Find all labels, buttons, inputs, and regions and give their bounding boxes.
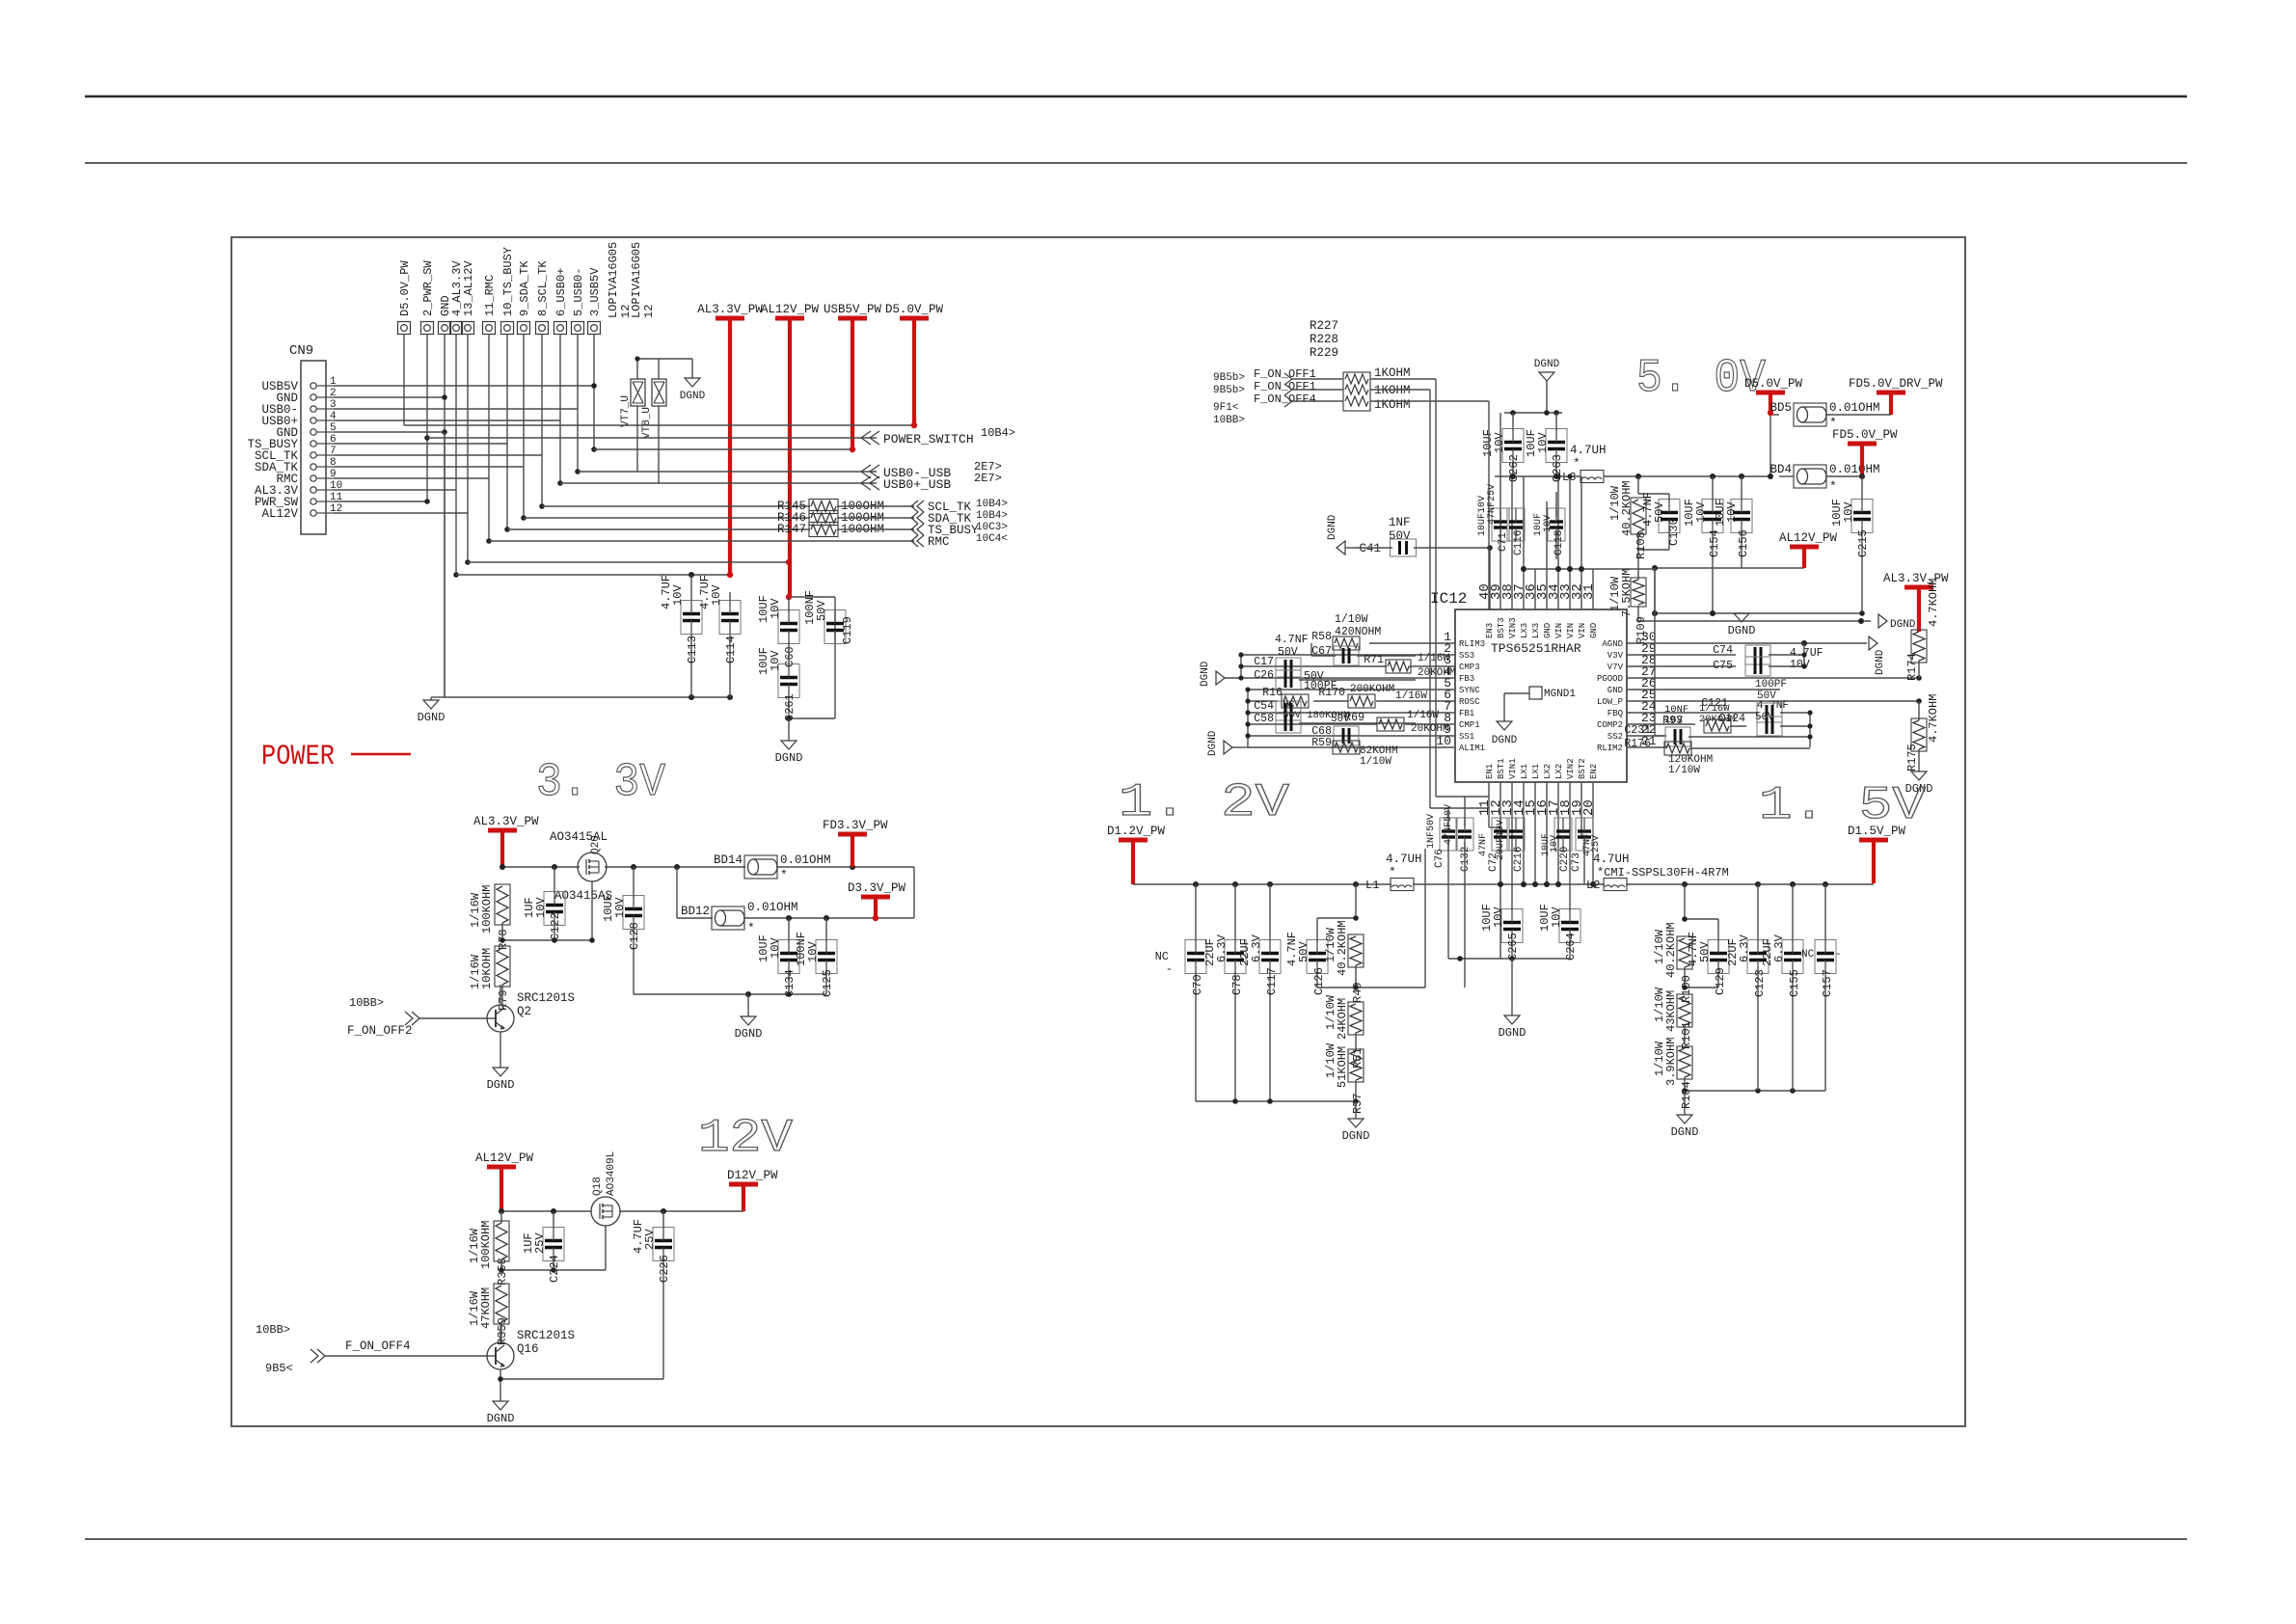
svg-text:R58: R58 xyxy=(1311,631,1332,643)
svg-text:C58: C58 xyxy=(1254,713,1274,725)
test point 6_USB0+ xyxy=(554,268,569,335)
svg-text:C41: C41 xyxy=(1359,542,1381,555)
wire TS_BUSY row right xyxy=(837,528,914,530)
IC12 top pin numbers and stubs xyxy=(1477,569,1597,609)
svg-text:50V: 50V xyxy=(1297,941,1310,962)
power flag D3.3V_PW xyxy=(848,881,906,918)
svg-text:C75: C75 xyxy=(1713,660,1733,672)
capacitor C54 xyxy=(1254,699,1301,720)
IC IC12 TPS65251RHAR xyxy=(1430,590,1627,782)
IC12 right pin stubs xyxy=(1627,643,1666,747)
svg-text:D1.5V_PW: D1.5V_PW xyxy=(1848,825,1906,838)
svg-text:10V: 10V xyxy=(769,650,782,671)
capacitor C224 1UF 25V xyxy=(522,1211,564,1283)
svg-text:BST3: BST3 xyxy=(1497,617,1506,638)
svg-text:D5.0V_PW: D5.0V_PW xyxy=(1744,377,1803,391)
svg-text:5_USB0-: 5_USB0- xyxy=(572,268,585,316)
svg-text:50V: 50V xyxy=(1278,646,1298,659)
svg-text:SRC1201S: SRC1201S xyxy=(517,1329,575,1342)
svg-text:DGND: DGND xyxy=(1327,514,1338,540)
svg-text:100KOHM: 100KOHM xyxy=(479,1221,493,1269)
ground DGND right arrow upper xyxy=(1878,614,1916,631)
svg-text:DGND: DGND xyxy=(1207,730,1219,756)
capacitor C265 10UF 10V xyxy=(1480,901,1523,961)
capacitor C264 10UF 10V xyxy=(1538,901,1580,961)
svg-text:CMP3: CMP3 xyxy=(1459,663,1480,672)
resistor R147 100OHM xyxy=(777,523,884,537)
svg-text:1/16W: 1/16W xyxy=(1407,710,1439,721)
svg-text:R104: R104 xyxy=(1680,1081,1693,1109)
svg-text:6.3V: 6.3V xyxy=(1738,934,1751,962)
wire SDA_TK row left xyxy=(524,517,810,519)
svg-text:43KOHM: 43KOHM xyxy=(1664,990,1678,1032)
svg-text:R57: R57 xyxy=(1351,1093,1364,1114)
label NC C155 xyxy=(1801,949,1842,961)
off-page SCL_TK xyxy=(911,499,1008,514)
IC12 right pin names xyxy=(1597,639,1624,753)
svg-text:C126: C126 xyxy=(1312,967,1326,995)
svg-text:6.3V: 6.3V xyxy=(1772,934,1786,962)
svg-text:BST2: BST2 xyxy=(1578,758,1587,779)
svg-text:GND: GND xyxy=(1607,686,1623,695)
resistor R145 100OHM xyxy=(777,500,884,514)
svg-text:51KOHM: 51KOHM xyxy=(1336,1046,1349,1088)
capacitor C220 10UF 10V xyxy=(1541,818,1572,872)
wire pin25 LOW_P to R175 xyxy=(1666,700,1919,702)
wire testpoint drop x616 xyxy=(593,334,595,449)
wire CN9 pin9 row xyxy=(334,477,489,479)
svg-text:Q18: Q18 xyxy=(592,1177,604,1196)
capacitor C231 xyxy=(1624,724,1810,746)
svg-text:RLIM2: RLIM2 xyxy=(1597,744,1623,753)
wire 1.5V cap ground row xyxy=(1685,1090,1825,1092)
svg-text:EN1: EN1 xyxy=(1485,764,1495,779)
svg-text:10V: 10V xyxy=(806,941,820,962)
resistor R57 51KOHM xyxy=(1324,1042,1364,1114)
svg-text:SRC1201S: SRC1201S xyxy=(517,991,575,1005)
wire C261 to ground xyxy=(788,718,790,741)
svg-text:R170: R170 xyxy=(1318,687,1345,699)
svg-text:10: 10 xyxy=(1436,734,1451,748)
svg-text:AL12V_PW: AL12V_PW xyxy=(761,303,820,316)
svg-text:10BB>: 10BB> xyxy=(349,996,384,1010)
svg-text:C129: C129 xyxy=(1714,967,1727,995)
resistor R69 20KOHM xyxy=(1331,710,1449,735)
wire pin29 v3v feed vertical xyxy=(1654,569,1656,736)
svg-text:ROSC: ROSC xyxy=(1459,697,1480,707)
svg-text:USB5V_PW: USB5V_PW xyxy=(824,303,882,316)
capacitor C78 22UF 6.3V xyxy=(1203,884,1246,1101)
label POWER xyxy=(261,741,411,773)
svg-text:50V: 50V xyxy=(1653,501,1666,523)
svg-text:2_PWR_SW: 2_PWR_SW xyxy=(421,260,435,316)
svg-text:C123: C123 xyxy=(1753,969,1767,997)
wire CN9 pin3 row xyxy=(334,408,578,410)
wire pin30 AGND to ground xyxy=(1666,642,1867,644)
svg-text:13_AL12V: 13_AL12V xyxy=(462,260,475,316)
svg-text:USB0+_USB: USB0+_USB xyxy=(883,477,951,492)
svg-text:POWER_SWITCH: POWER_SWITCH xyxy=(883,432,974,447)
wire testpoint drop x507 xyxy=(488,334,490,541)
svg-text:12: 12 xyxy=(642,305,656,318)
wire C265 C264 ground row xyxy=(1448,958,1570,960)
svg-text:CN9: CN9 xyxy=(289,343,313,359)
mosfet Q20 AO3415AL xyxy=(550,830,612,903)
svg-text:0.01OHM: 0.01OHM xyxy=(1829,401,1880,415)
svg-text:C226: C226 xyxy=(658,1255,671,1283)
svg-text:PGOOD: PGOOD xyxy=(1597,674,1623,684)
svg-text:Q2: Q2 xyxy=(517,1005,531,1018)
capacitor C121 4.7NF 50V xyxy=(1666,697,1810,723)
wire pin27 PGOOD to R174 xyxy=(1666,677,1919,679)
svg-text:VIN: VIN xyxy=(1578,623,1587,638)
wire IC12 pin5-10 net lines xyxy=(1248,690,1416,747)
svg-text:V3V: V3V xyxy=(1607,651,1624,661)
IC12 top pin names xyxy=(1485,617,1599,638)
svg-text:LOW_P: LOW_P xyxy=(1597,697,1623,707)
capacitor C216 20UF 10V xyxy=(1496,818,1525,872)
svg-text:SS3: SS3 xyxy=(1459,651,1474,661)
test point 3_USB5V xyxy=(588,267,603,335)
wire testpoint drop x485 xyxy=(467,334,469,562)
wire C262 C263 top row xyxy=(1504,412,1562,414)
svg-text:47NF25V: 47NF25V xyxy=(1487,484,1498,525)
capacitor C262 10UF 10V xyxy=(1481,413,1524,482)
svg-text:C125: C125 xyxy=(821,969,834,997)
svg-text:6.3V: 6.3V xyxy=(1250,934,1263,962)
svg-text:R174: R174 xyxy=(1905,653,1919,681)
off-page TS_BUSY xyxy=(911,522,1008,537)
svg-text:C132: C132 xyxy=(1460,847,1472,872)
svg-text:4.7UH: 4.7UH xyxy=(1593,853,1630,866)
svg-text:0.01OHM: 0.01OHM xyxy=(780,853,831,867)
svg-text:C26: C26 xyxy=(1254,669,1274,682)
svg-text:DGND: DGND xyxy=(680,391,706,402)
svg-text:10V: 10V xyxy=(1492,907,1505,928)
svg-text:2E7>: 2E7> xyxy=(974,472,1002,485)
svg-text:420NOHM: 420NOHM xyxy=(1335,626,1381,638)
svg-text:10V: 10V xyxy=(710,584,723,606)
svg-text:25V: 25V xyxy=(533,1232,547,1254)
wire CN9 pin5 row xyxy=(334,431,445,433)
wire testpoint drop x526 xyxy=(506,334,508,529)
capacitor C26 100PF 50V xyxy=(1254,669,1416,692)
svg-text:F_ON_OFF1: F_ON_OFF1 xyxy=(1254,380,1316,393)
off-page USB0+_USB xyxy=(861,472,1002,492)
inductor L2 4.7UH CMI-SSPSL30FH-4R7M xyxy=(1586,853,1729,892)
wire IC12 top feeds xyxy=(1489,401,1581,569)
svg-text:VIN1: VIN1 xyxy=(1508,758,1518,779)
wire testpoint drop x543 xyxy=(523,334,525,518)
wire CN9 pin8 row xyxy=(334,466,524,468)
power flag AL12V_PW (5V section) xyxy=(1779,531,1838,568)
ground DGND right arrow pin30 xyxy=(1869,636,1886,675)
svg-text:-: - xyxy=(1835,949,1842,961)
svg-text:FB1: FB1 xyxy=(1459,709,1474,718)
svg-text:C76: C76 xyxy=(1434,849,1445,868)
svg-text:3. 3V: 3. 3V xyxy=(536,757,665,809)
svg-text:6.3V: 6.3V xyxy=(1215,934,1229,962)
svg-text:DGND: DGND xyxy=(487,1412,515,1425)
wire right bus xyxy=(1707,713,1810,748)
power flag D5.0V_PW xyxy=(885,303,944,425)
resistor R59 82KOHM xyxy=(1311,737,1397,768)
wire 1.2V rail xyxy=(1133,883,1874,885)
svg-text:9B5b>: 9B5b> xyxy=(1213,372,1245,384)
svg-text:F_ON_OFF4: F_ON_OFF4 xyxy=(345,1340,411,1353)
wire CN9 pin4 row xyxy=(334,420,560,421)
IC12 right pin numbers xyxy=(1641,630,1657,748)
svg-text:C17: C17 xyxy=(1254,656,1274,668)
svg-text:C128: C128 xyxy=(628,922,641,950)
schematic frame xyxy=(231,237,1965,1426)
svg-text:C116: C116 xyxy=(1513,530,1525,555)
svg-text:AL12V: AL12V xyxy=(261,507,298,521)
svg-text:4.7UH: 4.7UH xyxy=(1386,853,1422,866)
svg-text:DGND: DGND xyxy=(1890,619,1916,631)
svg-text:C118: C118 xyxy=(1553,530,1565,555)
inductor L1 4.7UH xyxy=(1365,853,1422,892)
resistor R51 24KOHM xyxy=(1324,994,1364,1069)
svg-text:*: * xyxy=(1829,479,1837,494)
svg-text:TPS65251RHAR: TPS65251RHAR xyxy=(1491,641,1581,656)
svg-text:LX2: LX2 xyxy=(1543,764,1553,779)
resistor R93 20KOHM xyxy=(1662,703,1746,733)
svg-text:DGND: DGND xyxy=(418,711,446,724)
test point 5_USB0- xyxy=(572,268,586,335)
svg-text:R227: R227 xyxy=(1310,319,1338,333)
svg-text:LX1: LX1 xyxy=(1531,764,1541,779)
ground DGND below C261 xyxy=(775,741,803,765)
test point 8_SCL_TK xyxy=(536,260,551,335)
svg-text:C114: C114 xyxy=(724,636,738,663)
svg-text:BD14: BD14 xyxy=(714,853,743,867)
svg-text:POWER: POWER xyxy=(261,741,335,773)
svg-text:50V: 50V xyxy=(815,600,828,621)
wire Q18 gate row xyxy=(501,1226,606,1270)
wire VT7 VT8 tops to DGND xyxy=(637,359,692,379)
svg-text:L1: L1 xyxy=(1365,879,1379,892)
wire 3.3V ground row xyxy=(634,993,826,995)
svg-text:VIN3: VIN3 xyxy=(1508,617,1518,638)
ground DGND 3.3V caps xyxy=(735,994,763,1041)
wire SDA_TK row right xyxy=(837,517,914,519)
svg-text:GND: GND xyxy=(1543,623,1553,638)
wire net AL12V row xyxy=(468,561,789,563)
capacitor C125 100NF 10V xyxy=(795,918,837,997)
svg-text:*: * xyxy=(780,868,788,882)
svg-text:C156: C156 xyxy=(1737,529,1750,557)
svg-text:IC12: IC12 xyxy=(1430,590,1467,608)
svg-text:FBQ: FBQ xyxy=(1607,709,1623,718)
wire GND testpoint to ground xyxy=(431,432,445,700)
svg-text:20KOHM: 20KOHM xyxy=(1411,723,1449,735)
svg-text:DGND: DGND xyxy=(1342,1129,1370,1143)
IC12 left pin numbers xyxy=(1436,630,1451,748)
wire AL12V cap block loop xyxy=(789,597,835,718)
svg-text:LX3: LX3 xyxy=(1531,623,1541,638)
wire cap bottoms row xyxy=(445,696,730,698)
test point 11_RMC xyxy=(483,275,498,335)
ground DGND left of C41 xyxy=(1327,514,1354,555)
svg-text:11_RMC: 11_RMC xyxy=(483,275,497,316)
svg-text:AL12V_PW: AL12V_PW xyxy=(1779,531,1838,545)
resistor R49 40.2KOHM xyxy=(1317,849,1425,1003)
svg-text:COMP2: COMP2 xyxy=(1597,720,1623,730)
ground DGND left lower xyxy=(1207,730,1232,756)
power flag FD3.3V_PW xyxy=(823,819,888,867)
svg-text:10KOHM: 10KOHM xyxy=(480,948,494,989)
svg-text:C73: C73 xyxy=(1571,853,1582,872)
svg-text:10V: 10V xyxy=(769,598,782,619)
svg-text:1/16W: 1/16W xyxy=(1395,690,1427,702)
svg-text:10V: 10V xyxy=(1543,515,1553,532)
capacitor C75 10UF xyxy=(1666,657,1810,676)
wire net USB5V row xyxy=(594,448,852,450)
resistor R79 10KOHM xyxy=(469,946,510,1011)
off-page USB0-_USB xyxy=(861,460,1002,480)
svg-text:C130: C130 xyxy=(1667,518,1681,546)
svg-text:FB3: FB3 xyxy=(1459,674,1474,684)
capacitor C60 10UF 10V xyxy=(757,595,799,667)
svg-text:CMP1: CMP1 xyxy=(1459,720,1480,730)
svg-text:DGND: DGND xyxy=(735,1027,763,1041)
wire BD12 branch xyxy=(677,867,914,918)
svg-text:FD5.0V_PW: FD5.0V_PW xyxy=(1832,428,1898,442)
wire testpoint drop x473 xyxy=(455,334,457,575)
IC12 left pin stubs xyxy=(1416,643,1455,747)
wire Q20 gate row xyxy=(502,881,592,940)
svg-text:10V: 10V xyxy=(1536,432,1550,453)
svg-text:AL12V_PW: AL12V_PW xyxy=(475,1151,534,1165)
test point D5.0V_PW xyxy=(398,260,413,335)
capacitor C124 xyxy=(1718,713,1810,736)
svg-text:47KOHM: 47KOHM xyxy=(479,1287,493,1329)
wire SCL_TK row left xyxy=(542,505,810,507)
capacitor C122 1UF 10V xyxy=(523,867,565,940)
transistor Q16 SRC1201S xyxy=(487,1322,575,1401)
capacitor C118 10UF 10V xyxy=(1533,492,1565,559)
svg-text:VT7_U: VT7_U xyxy=(620,395,632,427)
test point 13_AL12V xyxy=(462,260,476,335)
capacitor C134 10UF 10V xyxy=(757,918,799,997)
svg-text:47NF50V: 47NF50V xyxy=(1444,804,1454,845)
svg-text:MGND1: MGND1 xyxy=(1544,689,1576,700)
power flag FD5.0V_PW xyxy=(1832,428,1898,476)
IC12 left pin names xyxy=(1459,639,1485,753)
svg-text:1KOHM: 1KOHM xyxy=(1374,384,1411,397)
svg-text:0.01OHM: 0.01OHM xyxy=(747,901,798,914)
svg-text:10BB>: 10BB> xyxy=(1213,415,1245,426)
jumper label LOPIVA16G05 VT8 xyxy=(630,242,656,318)
svg-text:C220: C220 xyxy=(1559,847,1571,872)
IC12 bottom pin names xyxy=(1485,758,1599,779)
wire SCL_TK row right xyxy=(837,505,914,507)
svg-text:C74: C74 xyxy=(1713,644,1733,657)
svg-text:10B4>: 10B4> xyxy=(976,510,1008,522)
resistor R104 3.9KOHM xyxy=(1653,1038,1693,1109)
labels R227 R228 R229 xyxy=(1310,319,1338,360)
svg-text:DGND: DGND xyxy=(1499,1026,1526,1040)
svg-text:AO3409L: AO3409L xyxy=(606,1151,617,1196)
ground DGND below connector bundle xyxy=(418,700,446,724)
inductor L3 4.7UH xyxy=(1562,444,1607,484)
svg-text:DGND: DGND xyxy=(1492,735,1518,746)
svg-text:9F1<: 9F1< xyxy=(1213,402,1238,414)
svg-text:9B5<: 9B5< xyxy=(265,1362,293,1375)
wire testpoint drop x599 xyxy=(577,334,579,472)
test point 10_TS_BUSY xyxy=(501,247,516,335)
svg-text:1/10W: 1/10W xyxy=(1360,756,1391,768)
capacitor C117 22UF 6.3V xyxy=(1238,884,1281,1101)
svg-text:10BB>: 10BB> xyxy=(256,1323,290,1337)
svg-text:10C3>: 10C3> xyxy=(976,522,1008,533)
wire net D5.0V row xyxy=(404,424,914,426)
svg-text:C113: C113 xyxy=(686,636,699,663)
capacitor C17 4.7NF 50V xyxy=(1254,634,1308,677)
page bottom rule xyxy=(85,1538,2187,1540)
svg-text:NC: NC xyxy=(1155,950,1169,963)
svg-text:1/10W: 1/10W xyxy=(1335,613,1368,626)
wire testpoint drop x443 xyxy=(426,334,428,501)
resistor R358 100KOHM xyxy=(468,1211,509,1286)
svg-text:*CMI-SSPSL30FH-4R7M: *CMI-SSPSL30FH-4R7M xyxy=(1597,866,1729,880)
capacitor C215 10UF 10V xyxy=(1830,476,1873,613)
wire net AL3.3V row xyxy=(456,574,730,576)
svg-text:R147: R147 xyxy=(777,523,806,536)
svg-text:C119: C119 xyxy=(841,616,854,644)
capacitor C68 xyxy=(1311,725,1359,745)
resistor R78 100KOHM xyxy=(469,884,510,950)
svg-text:6_USB0+: 6_USB0+ xyxy=(554,268,568,316)
capacitor C41 1NF 50V xyxy=(1354,516,1490,609)
svg-text:100KOHM: 100KOHM xyxy=(480,885,494,934)
svg-text:1NF: 1NF xyxy=(1389,516,1411,529)
wire VIN bus xyxy=(1524,568,1655,570)
power flag AL3.3V_PW xyxy=(697,303,763,575)
svg-text:R176: R176 xyxy=(1624,738,1651,750)
svg-text:VIN2: VIN2 xyxy=(1566,758,1576,779)
svg-text:9B5b>: 9B5b> xyxy=(1213,385,1245,396)
wire TS_BUSY row left xyxy=(507,528,810,530)
page top rule 1 xyxy=(85,95,2187,98)
test point 4_AL3.3V xyxy=(450,260,465,335)
capacitor C129 4.7NF 50V xyxy=(1687,919,1729,995)
test point 9_SDA_TK xyxy=(518,260,532,335)
svg-text:40.2KOHM: 40.2KOHM xyxy=(1664,922,1678,978)
resistor R174 4.7KOHM xyxy=(1905,579,1940,681)
power flag AL3.3V_PW (3.3V section) xyxy=(473,815,539,867)
svg-text:C78: C78 xyxy=(1230,974,1244,995)
wire net RMC row xyxy=(489,540,914,542)
power flag D1.5V_PW xyxy=(1848,825,1906,883)
wire net USB0+ row xyxy=(560,482,877,484)
diode VT8_U xyxy=(641,379,666,439)
off-page RMC xyxy=(911,533,1008,549)
wire CN9 pin11 row xyxy=(334,501,427,502)
off-page SDA_TK xyxy=(911,510,1008,526)
svg-text:50V: 50V xyxy=(1331,714,1350,725)
svg-text:C155: C155 xyxy=(1788,969,1801,997)
capacitor C58 xyxy=(1254,713,1416,733)
svg-text:DGND: DGND xyxy=(1728,624,1756,637)
svg-text:10V: 10V xyxy=(769,937,782,959)
wire testpoint drop x419 xyxy=(403,334,405,425)
svg-text:ALIM1: ALIM1 xyxy=(1459,744,1485,753)
svg-text:C216: C216 xyxy=(1513,847,1525,872)
power flag AL12V_PW xyxy=(761,303,820,597)
svg-text:DGND: DGND xyxy=(1875,649,1886,675)
